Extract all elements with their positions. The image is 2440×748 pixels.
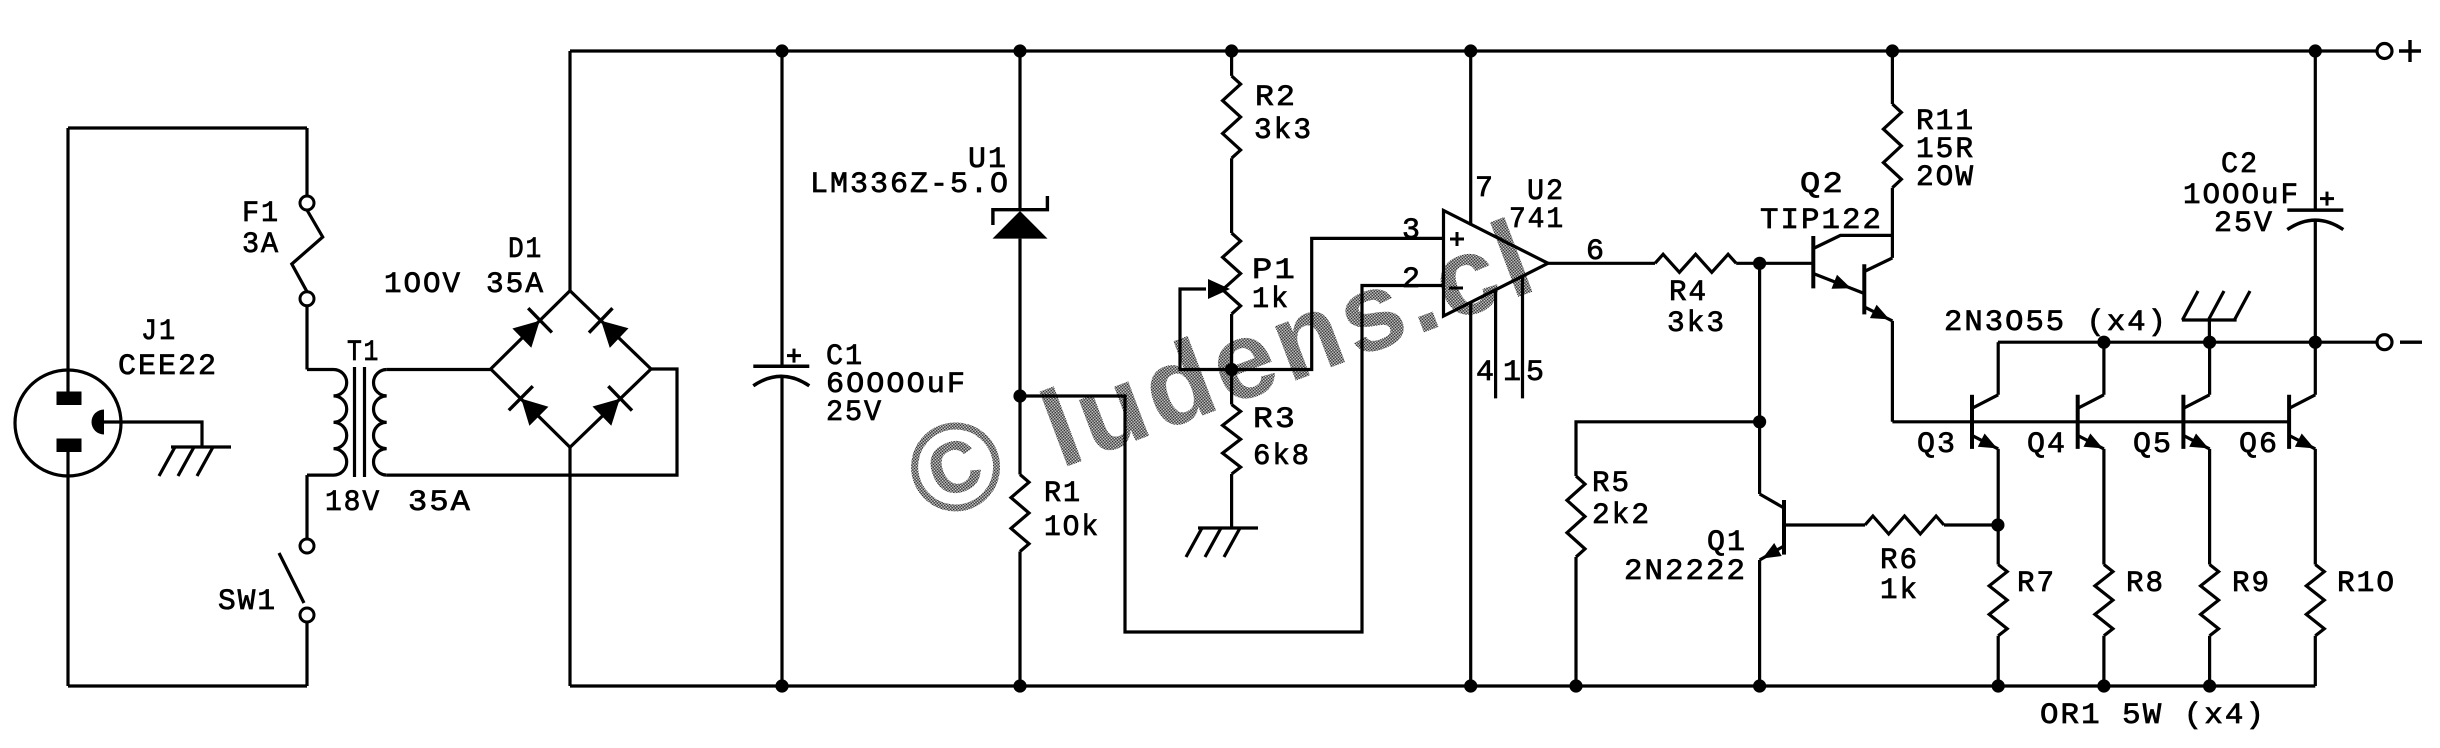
svg-text:J1: J1	[141, 315, 177, 349]
svg-text:25V: 25V	[2214, 207, 2274, 241]
resistor R4	[1655, 254, 1736, 272]
wire secondary to bridge	[387, 368, 491, 371]
node R5 bottom	[1569, 679, 1582, 692]
transistor Q3 emitter	[1972, 435, 1998, 449]
wire R4 node down	[1758, 263, 1761, 422]
wire bridge plus	[568, 51, 571, 291]
transistor Q4 collector	[2078, 395, 2104, 409]
capacitor C2	[2287, 208, 2343, 212]
wire U1 top lead	[1018, 51, 1021, 210]
wire bottom bus	[570, 684, 2315, 687]
transistor Q6 collector	[2289, 395, 2315, 409]
connector J1 body	[15, 370, 121, 476]
potentiometer P1	[1223, 233, 1241, 314]
svg-text:OR1 5W (x4): OR1 5W (x4)	[2040, 699, 2266, 733]
svg-text:TIP122: TIP122	[1760, 204, 1883, 238]
transistor Q4 emitter	[2078, 435, 2104, 449]
wire R6 to sense	[1944, 523, 1998, 526]
node U1 top	[1013, 44, 1026, 57]
svg-text:R9: R9	[2232, 567, 2271, 601]
wire Q1 base	[1784, 523, 1865, 526]
wire Q3 emitter down	[1997, 449, 2000, 565]
node R7 bottom	[1992, 679, 2005, 692]
wire P1 wiper	[1180, 289, 1232, 370]
transistor Q1 emitter	[1760, 546, 1784, 560]
op-amp U2 plus input	[1450, 238, 1464, 241]
wire Q6 collector up	[2314, 342, 2317, 395]
transistor Q2 emitter 2	[1864, 307, 1892, 321]
node C1 bottom	[775, 679, 788, 692]
transistor Q1 emitter arrow	[1762, 543, 1781, 559]
connector J1 pin E	[92, 410, 105, 435]
svg-text:Q4: Q4	[2027, 428, 2067, 462]
svg-text:18V: 18V	[325, 486, 381, 520]
terminal output minus	[2377, 335, 2392, 350]
wire C1 top lead	[780, 51, 783, 366]
svg-text:741: 741	[1509, 203, 1565, 237]
transistor Q5 base bar	[2181, 395, 2185, 449]
svg-text:2N2222: 2N2222	[1624, 555, 1747, 589]
wire pin4	[1469, 303, 1472, 686]
transistor Q5 collector	[2183, 395, 2209, 409]
svg-text:R4: R4	[1669, 276, 1708, 310]
wire Q2 collector up	[1891, 188, 1894, 258]
svg-text:2: 2	[1402, 263, 1422, 297]
svg-text:3: 3	[1402, 214, 1422, 248]
wire R2 to P1	[1230, 158, 1233, 233]
svg-text:7: 7	[1475, 172, 1495, 206]
wire Q4 collector up	[2102, 342, 2105, 395]
svg-text:R5: R5	[1592, 467, 1631, 501]
resistor R9	[2201, 565, 2219, 636]
transistor Q2 base bar 2	[1862, 264, 1866, 314]
node R9 bottom	[2203, 679, 2216, 692]
svg-text:R1O: R1O	[2337, 567, 2396, 601]
transistor Q2 collector 2	[1864, 258, 1892, 272]
transistor Q5 emitter	[2183, 435, 2209, 449]
svg-text:3A: 3A	[242, 228, 280, 262]
svg-text:SW1: SW1	[218, 585, 277, 619]
wire minus rail	[1998, 341, 2377, 344]
wire base rail	[1892, 420, 2289, 423]
wire Q1 collector lead	[1758, 422, 1761, 494]
transistor Q3 base bar	[1970, 395, 1974, 449]
op-amp U2 triangle	[1444, 211, 1549, 317]
svg-text:D1: D1	[508, 233, 543, 267]
wire R7 bottom lead	[1997, 636, 2000, 686]
svg-text:C2: C2	[2221, 148, 2259, 182]
node R11 top	[1886, 44, 1899, 57]
resistor R11	[1883, 104, 1901, 188]
fuse F1 element	[292, 210, 323, 292]
svg-text:35A: 35A	[486, 268, 545, 302]
transistor Q1 base bar	[1782, 500, 1786, 555]
wire U2 output	[1548, 262, 1655, 265]
svg-text:35A: 35A	[408, 486, 472, 520]
ground chassis rail	[2182, 318, 2237, 321]
wire feedback	[1020, 286, 1444, 633]
resistor R1	[1011, 475, 1029, 552]
svg-text:R1: R1	[1044, 477, 1082, 511]
wire C2 top lead	[2314, 51, 2317, 210]
wire R9 bottom lead	[2208, 636, 2211, 686]
wire J1 top lead	[66, 128, 69, 393]
pin 1 stub	[1494, 290, 1497, 398]
node Q6 collector rail	[2309, 336, 2322, 349]
wire T1 to SW1	[305, 475, 308, 539]
svg-text:CEE22: CEE22	[118, 350, 218, 384]
svg-text:5: 5	[1526, 356, 1546, 390]
transformer T1 core	[353, 367, 356, 477]
svg-text:1: 1	[1503, 356, 1523, 390]
svg-text:1OOV: 1OOV	[384, 268, 462, 302]
transformer T1 secondary	[374, 370, 387, 476]
op-amp U2 minus input	[1449, 287, 1463, 290]
svg-text:T1: T1	[347, 336, 380, 370]
wire secondary return	[387, 369, 677, 475]
wire R5 bottom lead	[1574, 557, 1577, 686]
ground R3	[1198, 526, 1258, 529]
node Q5 collector rail	[2203, 336, 2216, 349]
wire Q6 emitter down	[2314, 449, 2317, 565]
node A ref	[1013, 389, 1026, 402]
svg-text:1k: 1k	[1880, 574, 1919, 608]
wire Q5 emitter down	[2208, 449, 2211, 565]
wire pin3	[1232, 238, 1444, 369]
svg-text:Q3: Q3	[1917, 428, 1957, 462]
wire R3 bottom lead	[1230, 474, 1233, 528]
svg-text:2OW: 2OW	[1916, 161, 1975, 195]
diode D1a	[512, 321, 539, 348]
resistor R10	[2306, 565, 2324, 636]
wire SW1 bottom lead	[305, 622, 308, 686]
transistor Q2 emitter2 arrow	[1870, 305, 1890, 320]
wire R10 bottom lead	[2314, 636, 2317, 686]
diode D1b	[601, 321, 628, 348]
resistor R8	[2095, 565, 2113, 636]
pin 5 stub	[1521, 277, 1524, 398]
connector J1 pin N	[57, 439, 82, 453]
resistor R5	[1567, 476, 1585, 557]
switch SW1 contact top	[300, 539, 314, 553]
svg-text:25V: 25V	[826, 396, 883, 430]
wire top bus	[570, 49, 2377, 52]
wire J1 earth	[104, 422, 202, 447]
capacitor C1	[753, 365, 809, 369]
node pin7 top	[1464, 44, 1477, 57]
wire R11 top lead	[1891, 51, 1894, 104]
node R5 junction	[1753, 415, 1766, 428]
wire AC top	[68, 126, 307, 129]
svg-text:Q6: Q6	[2239, 428, 2279, 462]
fuse F1 contact bottom	[300, 292, 314, 306]
transistor Q3 emitter arrow	[1978, 434, 1997, 449]
label C2 plus	[2320, 197, 2334, 200]
switch SW1 contact bottom	[300, 608, 314, 622]
terminal output plus	[2377, 44, 2392, 59]
svg-text:R3: R3	[1253, 403, 1297, 437]
node R8 bottom	[2097, 679, 2110, 692]
transistor Q5 emitter arrow	[2189, 434, 2208, 449]
svg-text:LM336Z-5.O: LM336Z-5.O	[810, 168, 1010, 202]
wire R4 to Q2	[1736, 262, 1813, 265]
transformer T1 primary	[307, 370, 347, 476]
wire Q4 emitter down	[2102, 449, 2105, 565]
fuse F1 contact top	[300, 196, 314, 210]
node pin4 bottom	[1464, 679, 1477, 692]
node R2 top	[1225, 44, 1238, 57]
wire R2 top lead	[1230, 51, 1233, 76]
svg-text:2k2: 2k2	[1592, 499, 1651, 533]
ground J1 chassis	[171, 445, 231, 448]
wire C1 bottom lead	[780, 378, 783, 687]
switch SW1 lever	[279, 553, 304, 603]
node Q4 collector rail	[2097, 336, 2110, 349]
node sense	[1991, 518, 2004, 531]
transistor Q4 base bar	[2076, 395, 2080, 449]
transistor Q2 emitter1	[1813, 274, 1864, 294]
connector J1 pin L	[57, 392, 82, 406]
resistor R6	[1865, 516, 1944, 534]
resistor R7	[1989, 565, 2007, 636]
wire Q1 emitter lead	[1758, 560, 1761, 686]
svg-text:Q2: Q2	[1800, 168, 1845, 202]
wire R5 top	[1576, 422, 1760, 476]
diode D1c	[521, 399, 548, 426]
diode D1d	[593, 399, 620, 426]
wiper arrow P1	[1208, 279, 1230, 299]
wire F1 to T1	[305, 306, 308, 370]
transistor Q3 collector	[1972, 395, 1998, 409]
wire AC bottom	[68, 684, 307, 687]
zener U1	[993, 196, 1048, 225]
svg-text:R2: R2	[1255, 81, 1297, 115]
svg-text:1Ok: 1Ok	[1044, 511, 1100, 545]
node C1 top	[775, 44, 788, 57]
resistor R3	[1223, 405, 1241, 475]
transistor Q6 emitter	[2289, 435, 2315, 449]
wire bridge minus	[568, 447, 571, 686]
wire Q3 collector up	[1997, 342, 2000, 395]
wire U1 to R1	[1018, 239, 1021, 475]
svg-text:Q5: Q5	[2133, 428, 2173, 462]
transistor Q4 emitter arrow	[2084, 434, 2103, 449]
node P1 wiper junction	[1225, 363, 1238, 376]
node R1 bottom	[1013, 679, 1026, 692]
svg-text:R8: R8	[2126, 567, 2165, 601]
transistor Q1 collector	[1760, 494, 1784, 508]
node C2 top	[2309, 44, 2322, 57]
node Q1 emitter bottom	[1753, 679, 1766, 692]
wire Q5 collector up	[2208, 342, 2211, 395]
svg-text:R6: R6	[1880, 544, 1919, 578]
wire Q2 emitter down	[1891, 321, 1894, 422]
svg-text:3k3: 3k3	[1254, 114, 1313, 148]
wire F1 top lead	[305, 128, 308, 196]
label C1 plus	[787, 354, 801, 357]
svg-text:4: 4	[1476, 356, 1496, 390]
wire C2 bottom lead	[2314, 221, 2317, 342]
transistor Q6 base bar	[2287, 395, 2291, 449]
svg-text:1k: 1k	[1252, 283, 1290, 317]
wire J1 bottom lead	[66, 451, 69, 686]
svg-text:2N3O55 (x4): 2N3O55 (x4)	[1944, 306, 2168, 340]
svg-text:F1: F1	[242, 197, 280, 231]
transistor Q6 emitter arrow	[2295, 434, 2314, 449]
resistor R2	[1223, 76, 1241, 158]
wire R1 bottom lead	[1018, 552, 1021, 687]
transistor Q2 base bar	[1811, 236, 1815, 288]
bridge D1 diamond	[491, 291, 651, 448]
wire R8 bottom lead	[2102, 636, 2105, 686]
svg-text:3k3: 3k3	[1667, 307, 1726, 341]
svg-text:R7: R7	[2017, 567, 2056, 601]
wire pin7	[1469, 51, 1472, 226]
svg-text:6k8: 6k8	[1253, 440, 1311, 474]
wire P1 bottom lead	[1230, 314, 1233, 405]
transistor Q2 emitter1 arrow	[1832, 275, 1852, 289]
transistor Q2 collector	[1813, 235, 1892, 248]
node Q2 base	[1753, 257, 1766, 270]
